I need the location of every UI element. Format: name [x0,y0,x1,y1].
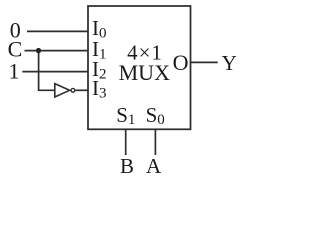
svg-text:B: B [120,154,134,178]
svg-text:1: 1 [9,59,20,84]
svg-text:Y: Y [222,51,237,75]
svg-text:A: A [146,154,162,178]
svg-text:MUX: MUX [119,60,170,85]
svg-text:O: O [173,50,189,75]
